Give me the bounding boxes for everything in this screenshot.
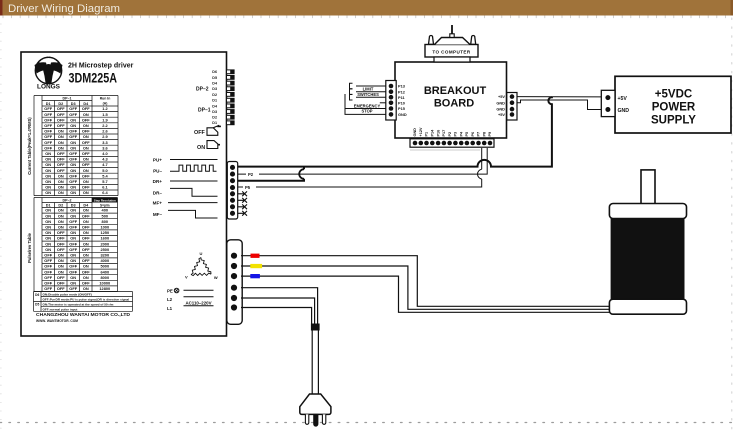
svg-text:L1: L1 xyxy=(167,306,173,311)
svg-text:OFF: OFF xyxy=(44,281,52,286)
svg-text:Run In: Run In xyxy=(100,97,111,101)
svg-text:P5: P5 xyxy=(245,185,251,190)
svg-text:ON: ON xyxy=(70,208,76,213)
svg-text:ON: ON xyxy=(45,173,51,178)
svg-text:ON: ON xyxy=(58,145,64,150)
svg-text:D1: D1 xyxy=(212,99,217,103)
svg-text:P15: P15 xyxy=(398,106,406,111)
svg-text:ON: ON xyxy=(83,157,89,162)
svg-text:ON: ON xyxy=(58,258,64,263)
svg-text:OFF: OFF xyxy=(82,151,90,156)
svg-text:OFF: OFF xyxy=(44,275,52,280)
wire P5 (direction) xyxy=(238,148,482,187)
hop of P5 riser over P2 wire xyxy=(477,169,481,179)
svg-text:12800: 12800 xyxy=(99,286,110,291)
svg-text:+5VDC: +5VDC xyxy=(655,89,692,101)
svg-text:ON: ON xyxy=(83,286,89,291)
svg-text:DP–2: DP–2 xyxy=(196,87,209,93)
svg-text:OFF: OFF xyxy=(69,179,77,184)
svg-text:S=p/m: S=p/m xyxy=(100,203,110,207)
svg-text:4.0: 4.0 xyxy=(102,151,107,156)
svg-text:OFF: OFF xyxy=(57,162,65,167)
svg-text:ON: ON xyxy=(45,230,51,235)
svg-text:OFF: OFF xyxy=(57,168,65,173)
svg-text:OFF: OFF xyxy=(44,117,52,122)
svg-text:D2: D2 xyxy=(58,203,63,207)
svg-text:ON: ON xyxy=(45,179,51,184)
svg-text:D6: D6 xyxy=(35,293,39,297)
svg-text:ON: ON xyxy=(45,241,51,246)
svg-text:ON: ON xyxy=(70,123,76,128)
svg-text:ON: ON xyxy=(45,157,51,162)
svg-text:Current Table(Peak=1.4*RMS): Current Table(Peak=1.4*RMS) xyxy=(27,117,32,175)
svg-text:4.7: 4.7 xyxy=(102,162,107,167)
svg-text:ON: ON xyxy=(45,247,51,252)
motor top cap xyxy=(609,204,686,219)
svg-text:DP–1: DP–1 xyxy=(198,108,211,114)
svg-text:L2: L2 xyxy=(167,297,173,302)
svg-text:POWER: POWER xyxy=(652,102,696,114)
svg-text:OFF: OFF xyxy=(69,129,77,134)
svg-text:P10: P10 xyxy=(398,101,405,106)
svg-text:OFF: OFF xyxy=(44,134,52,139)
svg-text:ON: ON xyxy=(45,225,51,230)
svg-text:2.6: 2.6 xyxy=(102,129,108,134)
svg-text:BOARD: BOARD xyxy=(434,98,474,110)
svg-text:ON: ON xyxy=(45,236,51,241)
svg-text:ON: ON xyxy=(83,208,89,213)
svg-text:DP–2: DP–2 xyxy=(63,199,72,203)
svg-text:OFF: OFF xyxy=(69,151,77,156)
svg-text:OFF: OFF xyxy=(82,247,90,252)
svg-text:6.1: 6.1 xyxy=(102,185,108,190)
svg-text:OFF: OFF xyxy=(82,140,90,145)
svg-text:OFF: OFF xyxy=(82,106,90,111)
svg-text:4.3: 4.3 xyxy=(102,157,108,162)
svg-text:D1: D1 xyxy=(46,102,51,106)
svg-text:OFF: OFF xyxy=(82,236,90,241)
svg-text:ON: ON xyxy=(58,269,64,274)
svg-text:OFF: OFF xyxy=(69,247,77,252)
svg-text:ON: ON xyxy=(70,185,76,190)
svg-text:TO COMPUTER: TO COMPUTER xyxy=(432,50,471,55)
svg-text:P7: P7 xyxy=(477,132,481,137)
svg-text:ON: ON xyxy=(70,145,76,150)
svg-text:OFF: OFF xyxy=(44,123,52,128)
svg-text:ON: ON xyxy=(45,190,51,195)
svg-text:GND: GND xyxy=(413,128,417,137)
svg-text:OFF: OFF xyxy=(69,241,77,246)
svg-text:10000: 10000 xyxy=(99,281,110,286)
AC wires PE/L2/L1 to plug xyxy=(241,288,318,324)
svg-text:P1: P1 xyxy=(425,132,429,137)
svg-text:STOP: STOP xyxy=(361,108,372,113)
svg-text:OFF: OFF xyxy=(82,258,90,263)
svg-text:P3: P3 xyxy=(454,132,458,137)
unused pin stubs with X xyxy=(238,191,247,196)
svg-text:ON: ON xyxy=(70,253,76,258)
svg-text:OFF: OFF xyxy=(69,173,77,178)
svg-text:P8: P8 xyxy=(482,132,486,137)
cable ferrule xyxy=(311,324,320,331)
svg-text:V: V xyxy=(185,275,188,280)
svg-text:OFF: OFF xyxy=(69,219,77,224)
svg-text:OFF: OFF xyxy=(57,281,65,286)
svg-text:1250: 1250 xyxy=(100,230,109,235)
LONGS logo xyxy=(35,57,63,90)
svg-text:Step Resolution: Step Resolution xyxy=(94,199,116,203)
svg-text:ON: ON xyxy=(58,185,64,190)
bottom dotted guide line xyxy=(0,422,733,424)
svg-text:P2: P2 xyxy=(448,132,452,137)
svg-text:D3: D3 xyxy=(212,87,217,91)
svg-text:OFF: OFF xyxy=(57,112,65,117)
svg-text:OFF: OFF xyxy=(44,140,52,145)
svg-text:ON: ON xyxy=(58,134,64,139)
svg-text:OFF: OFF xyxy=(82,117,90,122)
svg-text:OFF: OFF xyxy=(69,286,77,291)
svg-text:OFF: OFF xyxy=(57,123,65,128)
svg-text:ON: ON xyxy=(70,168,76,173)
AC plug body xyxy=(300,394,331,414)
left ruler ticks xyxy=(0,24,2,428)
svg-text:SWITCHES: SWITCHES xyxy=(357,92,379,97)
svg-text:D3: D3 xyxy=(71,203,76,207)
yellow phase wire V xyxy=(241,266,610,309)
svg-text:OFF: OFF xyxy=(82,162,90,167)
svg-text:ON: ON xyxy=(83,219,89,224)
svg-text:OFF: OFF xyxy=(57,117,65,122)
svg-text:2.9: 2.9 xyxy=(102,134,108,139)
svg-text:D2: D2 xyxy=(212,93,217,97)
svg-text:(A): (A) xyxy=(103,102,108,106)
svg-text:D6: D6 xyxy=(212,70,217,74)
svg-text:ON: ON xyxy=(45,219,51,224)
svg-text:OFF: OFF xyxy=(57,236,65,241)
svg-text:U: U xyxy=(200,251,203,256)
svg-text:ON: ON xyxy=(58,129,64,134)
svg-text:GND: GND xyxy=(618,108,630,114)
svg-text:ON: ON xyxy=(58,208,64,213)
svg-text:800: 800 xyxy=(102,219,109,224)
svg-text:ON: ON xyxy=(83,253,89,258)
svg-text:Pulse/rev Table: Pulse/rev Table xyxy=(27,232,32,262)
svg-text:OFF: OFF xyxy=(57,241,65,246)
svg-text:ON: ON xyxy=(83,145,89,150)
svg-text:ON: ON xyxy=(45,151,51,156)
svg-text:OFF: OFF xyxy=(57,286,65,291)
svg-text:OFF: OFF xyxy=(57,247,65,252)
svg-text:GND: GND xyxy=(398,112,407,117)
svg-text:MF+: MF+ xyxy=(153,201,163,206)
breakout board outline xyxy=(395,62,507,138)
svg-text:OFF: OFF xyxy=(69,106,77,111)
svg-text:400: 400 xyxy=(102,208,109,213)
svg-text:D1: D1 xyxy=(46,203,51,207)
svg-text:ON: ON xyxy=(70,230,76,235)
svg-text:6.4: 6.4 xyxy=(102,190,108,195)
svg-text:ON: ON xyxy=(45,185,51,190)
svg-text:OFF: OFF xyxy=(44,129,52,134)
svg-text:6400: 6400 xyxy=(100,269,109,274)
svg-text:OFF: OFF xyxy=(57,106,65,111)
svg-text:OFF: OFF xyxy=(57,230,65,235)
svg-text:MF–: MF– xyxy=(153,212,163,217)
right power connector of breakout board xyxy=(507,93,517,121)
svg-text:OFF: OFF xyxy=(44,286,52,291)
svg-text:WWW. WANTMOTOR. COM: WWW. WANTMOTOR. COM xyxy=(36,319,78,323)
svg-text:D5: D5 xyxy=(35,303,39,307)
svg-text:P2: P2 xyxy=(248,172,254,177)
svg-text:ON:The motor is operated at th: ON:The motor is operated at the speed of… xyxy=(43,302,114,306)
svg-text:OFF: OFF xyxy=(57,151,65,156)
svg-text:ON: ON xyxy=(70,281,76,286)
svg-text:D5: D5 xyxy=(212,76,217,80)
svg-text:OFF: OFF xyxy=(44,106,52,111)
svg-text:OFF: OFF xyxy=(44,269,52,274)
svg-text:500: 500 xyxy=(102,213,109,218)
svg-text:OFF: OFF xyxy=(82,213,90,218)
svg-text:D3: D3 xyxy=(212,110,217,114)
svg-text:ON: ON xyxy=(45,162,51,167)
svg-text:P9: P9 xyxy=(488,132,492,137)
svg-text:1.5: 1.5 xyxy=(102,112,108,117)
blue phase wire W xyxy=(241,276,610,312)
svg-text:3.6: 3.6 xyxy=(102,145,108,150)
svg-text:DR+: DR+ xyxy=(153,179,163,184)
svg-text:DP–1: DP–1 xyxy=(63,97,72,101)
svg-text:ON: ON xyxy=(70,162,76,167)
svg-text:D2: D2 xyxy=(212,116,217,120)
svg-text:D2: D2 xyxy=(58,102,63,106)
svg-text:ON: ON xyxy=(83,275,89,280)
svg-text:OFF: OFF xyxy=(69,112,77,117)
svg-text:GND: GND xyxy=(496,100,505,105)
svg-text:+5V: +5V xyxy=(498,112,505,117)
svg-text:ON: ON xyxy=(83,264,89,269)
svg-text:P14: P14 xyxy=(431,129,435,137)
svg-text:OFF: OFF xyxy=(44,264,52,269)
svg-text:ON: ON xyxy=(58,225,64,230)
svg-text:ON: ON xyxy=(70,117,76,122)
svg-text:OFF: OFF xyxy=(82,269,90,274)
svg-text:OFF: OFF xyxy=(57,157,65,162)
svg-text:PU–: PU– xyxy=(153,169,162,174)
svg-text:ON: ON xyxy=(70,190,76,195)
svg-text:OFF: OFF xyxy=(57,275,65,280)
svg-text:+5V: +5V xyxy=(498,94,505,99)
svg-text:P5: P5 xyxy=(465,132,469,137)
notes box D6/D5 xyxy=(34,292,133,312)
top ruler ticks xyxy=(3,16,725,19)
svg-text:BREAKOUT: BREAKOUT xyxy=(424,85,487,97)
power cord xyxy=(311,331,313,395)
svg-text:ON: ON xyxy=(58,253,64,258)
upper signal connector xyxy=(227,162,237,220)
wire P2 (pulse) xyxy=(238,148,488,174)
svg-text:ON: ON xyxy=(58,190,64,195)
svg-text:OFF: OFF xyxy=(82,225,90,230)
svg-text:ON: ON xyxy=(83,190,89,195)
svg-text:ON:Disable pulse mode (ON/OFF): ON:Disable pulse mode (ON/OFF) xyxy=(43,292,92,296)
svg-text:ON: ON xyxy=(83,179,89,184)
svg-text:3DM225A: 3DM225A xyxy=(69,71,118,86)
svg-text:GND: GND xyxy=(496,107,505,112)
+5VDC power supply xyxy=(615,76,731,133)
wire breakout GND to PSU GND xyxy=(517,100,601,110)
svg-text:OFF: OFF xyxy=(69,157,77,162)
svg-text:+5V: +5V xyxy=(618,96,628,102)
svg-text:ON: ON xyxy=(83,134,89,139)
svg-text:ON: ON xyxy=(70,258,76,263)
svg-text:OFF: OFF xyxy=(194,130,205,136)
svg-text:5.4: 5.4 xyxy=(102,173,108,178)
svg-text:Driver Wiring Diagram: Driver Wiring Diagram xyxy=(8,3,120,15)
svg-text:ON: ON xyxy=(70,236,76,241)
svg-text:PE: PE xyxy=(167,288,173,293)
wire DR+ thick from pin3 joining +5V run xyxy=(238,167,304,181)
svg-text:1.9: 1.9 xyxy=(102,117,108,122)
svg-text:PU+: PU+ xyxy=(153,158,162,163)
svg-text:5.7: 5.7 xyxy=(102,179,107,184)
lower power connector of driver xyxy=(227,240,242,324)
svg-text:ON: ON xyxy=(70,275,76,280)
motor body xyxy=(611,219,685,300)
svg-text:2.2: 2.2 xyxy=(102,123,108,128)
svg-text:ON: ON xyxy=(83,112,89,117)
svg-text:LONGS: LONGS xyxy=(37,85,60,91)
svg-text:OFF: OFF xyxy=(69,225,77,230)
svg-text:SUPPLY: SUPPLY xyxy=(651,115,696,127)
limit switches / emergency stop xyxy=(350,83,386,89)
title bar xyxy=(0,0,733,16)
svg-text:OFF: OFF xyxy=(82,281,90,286)
svg-text:OFF: OFF xyxy=(44,145,52,150)
svg-text:ON: ON xyxy=(45,168,51,173)
svg-text:ON: ON xyxy=(70,140,76,145)
wire +5V thick from pin1 to PSU via vertical riser xyxy=(238,97,552,167)
svg-text:OFF: OFF xyxy=(44,253,52,258)
svg-text:2H Microstep driver: 2H Microstep driver xyxy=(68,63,134,70)
svg-text:ON: ON xyxy=(58,179,64,184)
bottom pin strip of breakout board xyxy=(410,139,494,147)
svg-text:+12V: +12V xyxy=(419,127,423,136)
svg-text:8000: 8000 xyxy=(100,275,109,280)
svg-text:DR–: DR– xyxy=(153,190,163,195)
left input connector (P13..GND) xyxy=(386,81,396,121)
svg-text:5000: 5000 xyxy=(100,264,109,269)
svg-text:1.2: 1.2 xyxy=(102,106,108,111)
motor bottom cap xyxy=(609,299,686,314)
svg-text:OFF: OFF xyxy=(69,264,77,269)
svg-text:AC110–220V: AC110–220V xyxy=(185,300,211,305)
svg-text:4000: 4000 xyxy=(100,258,109,263)
red phase wire U xyxy=(241,256,610,307)
svg-text:1600: 1600 xyxy=(100,236,109,241)
PSU input connector xyxy=(601,90,615,116)
svg-text:OFF: OFF xyxy=(69,134,77,139)
svg-text:OFF: OFF xyxy=(69,269,77,274)
svg-text:OFF: OFF xyxy=(82,173,90,178)
svg-text:3.3: 3.3 xyxy=(102,140,108,145)
stepper motor shaft xyxy=(641,170,655,204)
step resolution table DP-2 xyxy=(34,198,118,292)
svg-text:ON: ON xyxy=(83,241,89,246)
svg-text:W: W xyxy=(214,275,218,280)
svg-text:ON: ON xyxy=(58,219,64,224)
plug prongs xyxy=(305,414,308,424)
svg-text:CHANGZHOU WANTAI MOTOR CO.,LTD: CHANGZHOU WANTAI MOTOR CO.,LTD xyxy=(36,312,130,317)
svg-text:ON: ON xyxy=(197,145,205,151)
svg-text:P12: P12 xyxy=(398,89,406,94)
svg-text:OFF:normal pulse input: OFF:normal pulse input xyxy=(43,307,78,311)
svg-text:2500: 2500 xyxy=(100,247,109,252)
svg-text:OFF: OFF xyxy=(82,129,90,134)
DIP switch bank DP-2 (6 switches) xyxy=(227,70,235,74)
svg-text:1000: 1000 xyxy=(100,225,109,230)
svg-text:ON: ON xyxy=(83,168,89,173)
svg-text:OFF: OFF xyxy=(82,185,90,190)
svg-text:3200: 3200 xyxy=(100,253,109,258)
svg-text:P11: P11 xyxy=(398,95,406,100)
svg-text:P16: P16 xyxy=(436,130,440,137)
svg-text:ON: ON xyxy=(58,264,64,269)
svg-text:OFF:Pu+DR mode:PU is pulse sig: OFF:Pu+DR mode:PU is pulse signal,DR is … xyxy=(43,297,130,301)
current setting table DP-1 xyxy=(34,96,118,196)
wire breakout +5V to PSU +5V xyxy=(517,96,601,98)
svg-text:ON: ON xyxy=(58,140,64,145)
TO COMPUTER connector xyxy=(425,45,478,58)
faint guide under strip xyxy=(410,149,480,151)
svg-text:D3: D3 xyxy=(71,102,76,106)
svg-text:OFF: OFF xyxy=(44,112,52,117)
motor winding delta symbol U V W xyxy=(191,258,211,276)
svg-text:2000: 2000 xyxy=(100,241,109,246)
svg-text:ON: ON xyxy=(58,173,64,178)
svg-text:LIMIT: LIMIT xyxy=(363,87,374,92)
svg-text:ON: ON xyxy=(58,213,64,218)
driver unit 3DM225A outline xyxy=(21,52,227,336)
svg-text:D1: D1 xyxy=(212,121,217,125)
svg-text:ON: ON xyxy=(45,213,51,218)
svg-text:5.0: 5.0 xyxy=(102,168,107,173)
svg-text:OFF: OFF xyxy=(44,258,52,263)
svg-text:ON: ON xyxy=(83,230,89,235)
svg-text:ON: ON xyxy=(70,213,76,218)
svg-text:ON: ON xyxy=(83,123,89,128)
svg-text:P17: P17 xyxy=(442,130,446,137)
svg-text:ON: ON xyxy=(45,208,51,213)
svg-text:P13: P13 xyxy=(398,84,406,89)
svg-text:P6: P6 xyxy=(471,132,475,137)
